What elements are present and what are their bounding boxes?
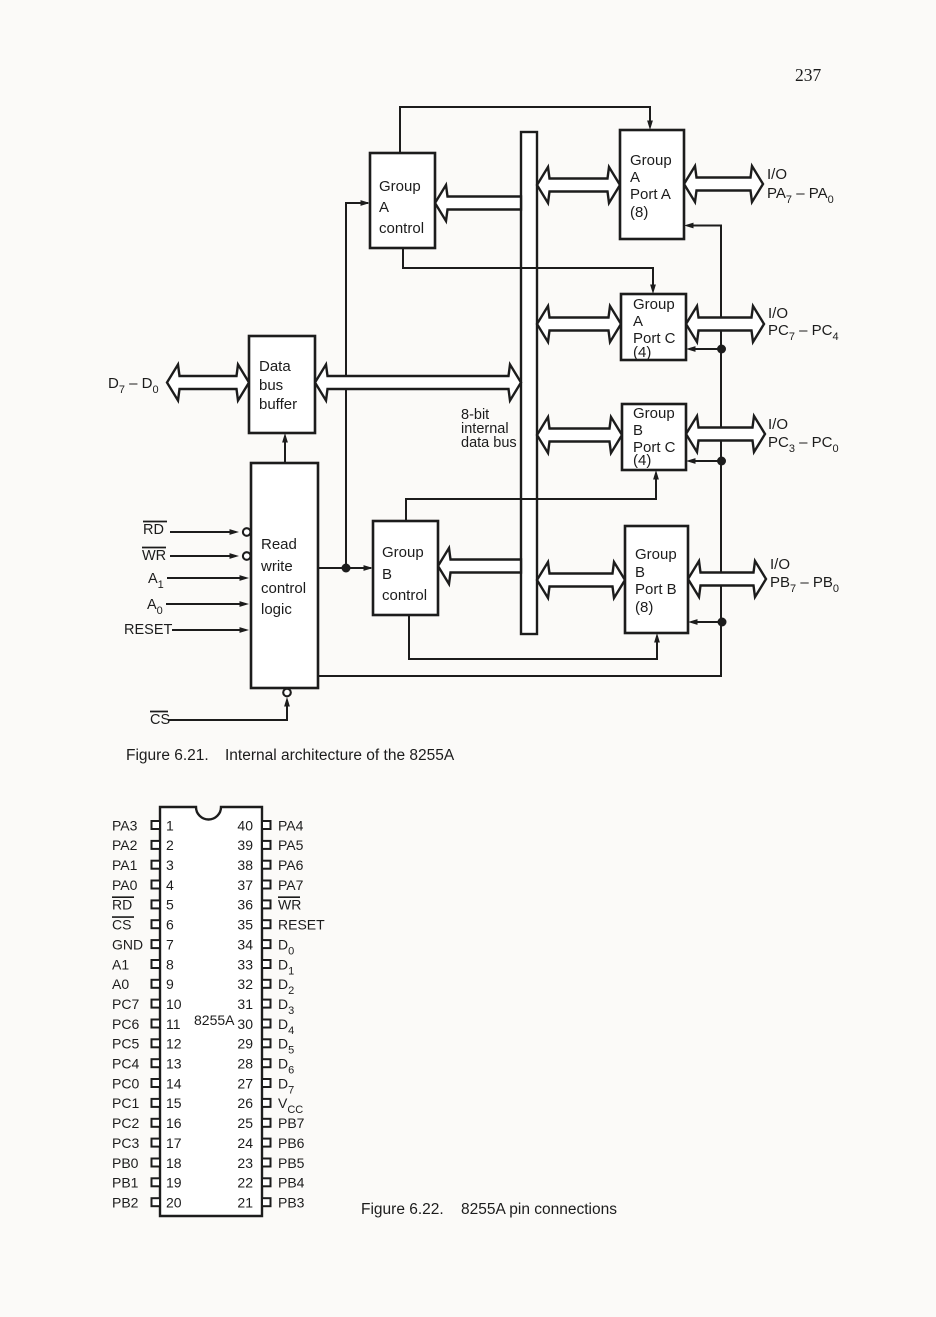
- svg-text:11: 11: [166, 1016, 181, 1032]
- pin 14 PC0: [152, 1079, 161, 1087]
- wire right net branch to Group B Port C: [689, 460, 721, 462]
- pin 6 CS: [152, 920, 161, 928]
- svg-text:(4): (4): [633, 452, 651, 469]
- svg-text:A: A: [630, 169, 640, 186]
- svg-text:PC3: PC3: [112, 1135, 139, 1151]
- IC body 8255A: [160, 807, 262, 1216]
- svg-text:PA7: PA7: [278, 877, 304, 893]
- svg-text:31: 31: [237, 996, 253, 1012]
- pin 21 PB3: [262, 1198, 271, 1206]
- block read write control logic: [251, 463, 318, 688]
- 8-bit internal data bus: [521, 132, 537, 634]
- svg-text:Figure 6.21.: Figure 6.21.: [126, 747, 209, 764]
- svg-text:A1: A1: [112, 956, 129, 972]
- pin 8 A1: [152, 960, 161, 968]
- block Group A control: [370, 153, 435, 248]
- svg-text:I/O: I/O: [770, 556, 790, 573]
- svg-text:write: write: [260, 558, 293, 575]
- bus arrow Group B Port C to I/O pins: [686, 416, 765, 452]
- svg-text:PC6: PC6: [112, 1016, 139, 1032]
- svg-text:A0: A0: [112, 976, 129, 992]
- wire Group B control bottom to Group B Port B bottom: [409, 614, 657, 659]
- svg-text:PB3: PB3: [278, 1194, 305, 1210]
- svg-text:Group: Group: [630, 152, 672, 169]
- svg-text:D1: D1: [278, 956, 294, 977]
- pin 23 PB5: [262, 1159, 271, 1167]
- wire Group A control bottom to Group A Port C top: [403, 247, 653, 291]
- svg-text:RESET: RESET: [278, 917, 325, 933]
- svg-text:Read: Read: [261, 536, 297, 553]
- svg-text:D0: D0: [278, 936, 294, 957]
- svg-text:logic: logic: [261, 601, 292, 618]
- svg-text:(4): (4): [633, 344, 651, 361]
- pin 1 PA3: [152, 821, 161, 829]
- pin 28 D6: [262, 1059, 271, 1067]
- svg-text:7: 7: [166, 936, 174, 952]
- input CS with wire and bubble: [150, 711, 168, 713]
- pin 13 PC4: [152, 1059, 161, 1067]
- svg-text:16: 16: [166, 1115, 182, 1131]
- svg-text:14: 14: [166, 1075, 182, 1091]
- wire node to Group A control left input: [346, 203, 368, 568]
- svg-text:1: 1: [166, 817, 174, 833]
- svg-text:RD: RD: [112, 897, 132, 913]
- pin 39 PA5: [262, 841, 271, 849]
- svg-text:CS: CS: [112, 917, 131, 933]
- svg-text:6: 6: [166, 917, 174, 933]
- svg-text:(8): (8): [635, 599, 653, 616]
- pin 32 D2: [262, 980, 271, 988]
- svg-text:PB7: PB7: [278, 1115, 305, 1131]
- svg-text:37: 37: [237, 877, 253, 893]
- svg-text:40: 40: [237, 817, 253, 833]
- svg-text:36: 36: [237, 897, 253, 913]
- input WR with wire and bubble: [142, 547, 166, 549]
- svg-text:34: 34: [237, 936, 253, 952]
- pin 34 D0: [262, 940, 271, 948]
- svg-text:PA7 – PA0: PA7 – PA0: [767, 185, 834, 206]
- block Group B Port C: [622, 404, 686, 470]
- pin 12 PC5: [152, 1039, 161, 1047]
- bus arrow internal bus to Group B control: [438, 548, 521, 584]
- svg-text:D3: D3: [278, 996, 294, 1017]
- svg-text:control: control: [261, 580, 306, 597]
- svg-text:30: 30: [237, 1016, 253, 1032]
- svg-text:8: 8: [166, 956, 174, 972]
- pin 40 PA4: [262, 821, 271, 829]
- svg-text:5: 5: [166, 897, 174, 913]
- svg-text:D2: D2: [278, 976, 294, 997]
- svg-text:control: control: [382, 587, 427, 604]
- svg-text:GND: GND: [112, 936, 143, 952]
- svg-text:PB5: PB5: [278, 1155, 305, 1171]
- svg-text:PC1: PC1: [112, 1095, 139, 1111]
- pin 10 PC7: [152, 1000, 161, 1008]
- svg-text:38: 38: [237, 857, 253, 873]
- svg-text:2: 2: [166, 837, 174, 853]
- svg-text:WR: WR: [278, 897, 301, 913]
- svg-text:237: 237: [795, 65, 822, 85]
- svg-text:32: 32: [237, 976, 253, 992]
- bus arrow data bus buffer to internal bus: [315, 365, 521, 401]
- pin 24 PB6: [262, 1139, 271, 1147]
- svg-text:WR: WR: [142, 548, 166, 564]
- svg-text:PC4: PC4: [112, 1056, 139, 1072]
- svg-text:23: 23: [237, 1155, 253, 1171]
- pin 4 PA0: [152, 881, 161, 889]
- pin 20 PB2: [152, 1198, 161, 1206]
- pin 25 PB7: [262, 1119, 271, 1127]
- block Group B control: [373, 521, 438, 615]
- svg-text:21: 21: [237, 1194, 253, 1210]
- svg-text:PA6: PA6: [278, 857, 304, 873]
- pin 2 PA2: [152, 841, 161, 849]
- svg-text:RD: RD: [143, 522, 164, 538]
- svg-text:4: 4: [166, 877, 174, 893]
- bus arrow internal bus to Group B Port C: [537, 417, 622, 453]
- wire right net branch to Group A Port C: [689, 348, 721, 350]
- svg-text:27: 27: [237, 1075, 253, 1091]
- pin 37 PA7: [262, 881, 271, 889]
- wire read write logic to right-side vertical net: [318, 226, 721, 677]
- pin 30 D4: [262, 1020, 271, 1028]
- svg-text:29: 29: [237, 1036, 253, 1052]
- svg-text:PB0: PB0: [112, 1155, 139, 1171]
- svg-text:A: A: [379, 199, 389, 216]
- svg-text:buffer: buffer: [259, 396, 297, 413]
- input RD with wire and bubble: [143, 521, 167, 523]
- svg-text:PC2: PC2: [112, 1115, 139, 1131]
- pin 7 GND: [152, 940, 161, 948]
- svg-text:PB7 – PB0: PB7 – PB0: [770, 574, 839, 595]
- svg-text:PC5: PC5: [112, 1036, 139, 1052]
- pin 38 PA6: [262, 861, 271, 869]
- svg-text:PA3: PA3: [112, 817, 138, 833]
- svg-text:Group: Group: [633, 296, 675, 313]
- block Group A Port C: [621, 294, 686, 360]
- svg-text:A: A: [633, 313, 643, 330]
- svg-text:Port A: Port A: [630, 186, 671, 203]
- svg-text:Data: Data: [259, 358, 291, 375]
- svg-text:PA0: PA0: [112, 877, 138, 893]
- svg-text:Port B: Port B: [635, 581, 677, 598]
- svg-text:control: control: [379, 220, 424, 237]
- svg-text:PC7 – PC4: PC7 – PC4: [768, 322, 839, 343]
- svg-text:9: 9: [166, 976, 174, 992]
- svg-text:8255A pin connections: 8255A pin connections: [461, 1201, 617, 1218]
- svg-text:data bus: data bus: [461, 435, 517, 451]
- svg-text:39: 39: [237, 837, 253, 853]
- svg-text:RESET: RESET: [124, 622, 172, 638]
- svg-text:PA1: PA1: [112, 857, 138, 873]
- svg-text:(8): (8): [630, 204, 648, 221]
- pin 19 PB1: [152, 1178, 161, 1186]
- svg-text:A0: A0: [147, 597, 163, 617]
- pin 18 PB0: [152, 1159, 161, 1167]
- pin 3 PA1: [152, 861, 161, 869]
- svg-text:26: 26: [237, 1095, 253, 1111]
- svg-text:19: 19: [166, 1175, 182, 1191]
- block Group A Port A: [620, 130, 684, 239]
- pin 26 VCC: [262, 1099, 271, 1107]
- svg-text:24: 24: [237, 1135, 253, 1151]
- bus arrow internal bus to Port A: [537, 167, 620, 203]
- svg-text:18: 18: [166, 1155, 182, 1171]
- pin 36 WR: [262, 900, 271, 908]
- pin 9 A0: [152, 980, 161, 988]
- wire read write logic to data bus buffer: [284, 436, 286, 463]
- pin 5 RD: [152, 900, 161, 908]
- svg-text:15: 15: [166, 1095, 182, 1111]
- bus arrow internal bus to Group A control: [435, 185, 521, 221]
- svg-text:13: 13: [166, 1056, 182, 1072]
- wire right net branch to Group B Port B: [691, 621, 721, 623]
- svg-text:CS: CS: [150, 712, 170, 728]
- svg-text:Group: Group: [382, 544, 424, 561]
- svg-text:Group: Group: [635, 546, 677, 563]
- svg-text:PB1: PB1: [112, 1175, 139, 1191]
- svg-text:B: B: [382, 566, 392, 583]
- wire Group A control top to Port A top: [400, 107, 650, 154]
- svg-text:28: 28: [237, 1056, 253, 1072]
- svg-text:8255A: 8255A: [194, 1012, 235, 1028]
- svg-text:22: 22: [237, 1175, 253, 1191]
- svg-text:PB4: PB4: [278, 1175, 305, 1191]
- svg-text:D5: D5: [278, 1036, 294, 1057]
- svg-text:D4: D4: [278, 1016, 294, 1037]
- pin 22 PB4: [262, 1178, 271, 1186]
- svg-text:I/O: I/O: [767, 166, 787, 183]
- svg-text:3: 3: [166, 857, 174, 873]
- svg-text:33: 33: [237, 956, 253, 972]
- svg-text:B: B: [635, 564, 645, 581]
- bus arrow Group B Port B to I/O pins: [688, 561, 766, 597]
- pin 15 PC1: [152, 1099, 161, 1107]
- svg-text:PA4: PA4: [278, 817, 304, 833]
- svg-text:17: 17: [166, 1135, 182, 1151]
- svg-text:VCC: VCC: [278, 1095, 303, 1116]
- svg-text:PB6: PB6: [278, 1135, 305, 1151]
- pin 29 D5: [262, 1039, 271, 1047]
- svg-text:Group: Group: [633, 405, 675, 422]
- pin 11 PC6: [152, 1020, 161, 1028]
- pin 33 D1: [262, 960, 271, 968]
- wire Group B control top to Group B Port C bottom: [406, 473, 656, 522]
- bus arrow D7-D0 to data bus buffer: [167, 365, 249, 401]
- pin 17 PC3: [152, 1139, 161, 1147]
- svg-text:A1: A1: [148, 571, 164, 591]
- svg-text:PC0: PC0: [112, 1075, 139, 1091]
- svg-text:I/O: I/O: [768, 305, 788, 322]
- svg-text:25: 25: [237, 1115, 253, 1131]
- svg-text:PC3 – PC0: PC3 – PC0: [768, 434, 839, 455]
- svg-text:Figure 6.22.: Figure 6.22.: [361, 1201, 444, 1218]
- wire read write logic to Group B control: [318, 567, 371, 569]
- svg-text:20: 20: [166, 1194, 182, 1210]
- svg-text:35: 35: [237, 917, 253, 933]
- svg-text:PC7: PC7: [112, 996, 139, 1012]
- block Group B Port B: [625, 526, 688, 633]
- svg-text:PA5: PA5: [278, 837, 304, 853]
- svg-text:I/O: I/O: [768, 416, 788, 433]
- svg-text:12: 12: [166, 1036, 182, 1052]
- svg-text:Internal architecture of the 8: Internal architecture of the 8255A: [225, 747, 455, 764]
- svg-text:PB2: PB2: [112, 1194, 139, 1210]
- bus arrow internal bus to Group A Port C: [537, 306, 621, 342]
- svg-text:B: B: [633, 422, 643, 439]
- block data bus buffer: [249, 336, 315, 433]
- svg-text:PA2: PA2: [112, 837, 138, 853]
- pin 16 PC2: [152, 1119, 161, 1127]
- pin 31 D3: [262, 1000, 271, 1008]
- svg-text:Group: Group: [379, 178, 421, 195]
- bus arrow Port A to I/O pins: [684, 166, 763, 202]
- svg-text:bus: bus: [259, 377, 283, 394]
- bus arrow internal bus to Group B Port B: [537, 562, 625, 598]
- bus arrow Group A Port C to I/O pins: [686, 306, 764, 342]
- svg-text:10: 10: [166, 996, 182, 1012]
- pin 27 D7: [262, 1079, 271, 1087]
- pin 35 RESET: [262, 920, 271, 928]
- svg-text:D7: D7: [278, 1075, 294, 1096]
- svg-text:D6: D6: [278, 1056, 294, 1077]
- svg-text:D7 – D0: D7 – D0: [108, 375, 159, 396]
